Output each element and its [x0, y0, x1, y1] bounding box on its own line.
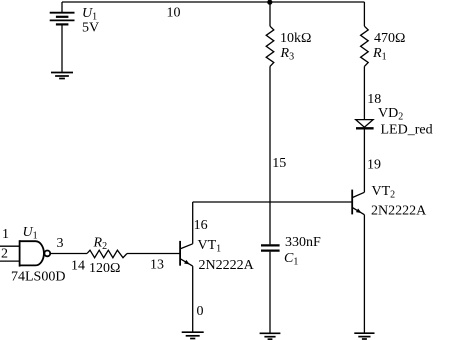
- svg-text:14: 14: [71, 258, 85, 273]
- svg-text:74LS00D: 74LS00D: [11, 270, 65, 285]
- svg-text:15: 15: [272, 156, 286, 171]
- wire VT1 collector: [192, 202, 194, 244]
- wire R1 to LED: [363, 66, 365, 119]
- wire gate output to R2: [50, 253, 87, 255]
- transistor VT1 base bar: [179, 241, 181, 266]
- wire R2 to VT1 base: [127, 253, 180, 255]
- NAND gate U1 output bubble: [44, 251, 50, 257]
- wire LED to VT2 collector: [363, 130, 365, 193]
- wire C1 to ground: [269, 252, 271, 333]
- svg-text:19: 19: [367, 158, 381, 173]
- svg-text:0: 0: [197, 304, 204, 319]
- battery U1 top lead: [61, 2, 63, 13]
- svg-text:330nF: 330nF: [285, 235, 321, 250]
- junction dot node 10: [267, 0, 272, 5]
- wire VT1 emitter to ground: [192, 266, 194, 332]
- svg-text:16: 16: [194, 218, 208, 233]
- wire top rail: [62, 1, 364, 3]
- LED VD2 cathode bar: [356, 127, 374, 129]
- resistor R1: [361, 26, 369, 66]
- NAND gate U1 input stub 2: [0, 260, 20, 262]
- LED VD2 triangle: [356, 120, 373, 128]
- wire R3 top lead: [269, 2, 271, 26]
- wire R3 to capacitor: [269, 66, 271, 244]
- svg-text:13: 13: [150, 258, 164, 273]
- svg-text:3: 3: [57, 236, 64, 251]
- resistor R2: [87, 250, 127, 258]
- svg-text:LED_red: LED_red: [381, 123, 433, 138]
- svg-text:R2: R2: [93, 236, 108, 253]
- svg-text:5V: 5V: [82, 21, 99, 36]
- arrow VT1 emitter: [184, 260, 190, 265]
- svg-text:VD2: VD2: [378, 106, 403, 123]
- svg-text:VT2: VT2: [372, 184, 396, 201]
- transistor VT2 collector diagonal: [352, 192, 364, 197]
- ground (C1): [260, 333, 281, 339]
- svg-text:120Ω: 120Ω: [89, 261, 120, 276]
- svg-text:VT1: VT1: [198, 238, 222, 255]
- arrow VT2 emitter: [356, 209, 362, 214]
- battery U1 bottom lead wire: [61, 24, 63, 71]
- transistor VT1 collector diagonal: [180, 244, 193, 249]
- transistor VT2 base bar: [351, 190, 353, 215]
- svg-text:U1: U1: [23, 225, 38, 242]
- svg-text:10: 10: [167, 6, 181, 21]
- svg-text:1: 1: [2, 227, 9, 242]
- wire R1 top lead: [363, 2, 365, 26]
- svg-text:470Ω: 470Ω: [374, 31, 405, 46]
- svg-text:2: 2: [1, 246, 8, 261]
- resistor R3: [266, 26, 274, 66]
- transistor VT2 emitter diagonal: [352, 207, 364, 214]
- svg-text:18: 18: [367, 92, 381, 107]
- svg-text:2N2222A: 2N2222A: [199, 258, 255, 273]
- wire mid horizontal node 15: [193, 201, 353, 203]
- transistor VT1 emitter diagonal: [180, 259, 193, 266]
- ground (battery): [51, 73, 73, 79]
- wire VT2 emitter to ground: [363, 215, 365, 333]
- svg-text:R3: R3: [280, 46, 295, 63]
- svg-text:R1: R1: [372, 46, 387, 63]
- capacitor C1 plates: [261, 245, 280, 250]
- ground (VT2): [354, 333, 374, 339]
- NAND gate U1 input stub 1: [0, 245, 20, 247]
- ground (VT1): [182, 332, 204, 338]
- svg-text:2N2222A: 2N2222A: [371, 203, 427, 218]
- svg-text:10kΩ: 10kΩ: [280, 31, 311, 46]
- battery U1 plates: [50, 13, 75, 25]
- svg-text:C1: C1: [284, 251, 298, 268]
- NAND gate U1 body: [20, 240, 51, 266]
